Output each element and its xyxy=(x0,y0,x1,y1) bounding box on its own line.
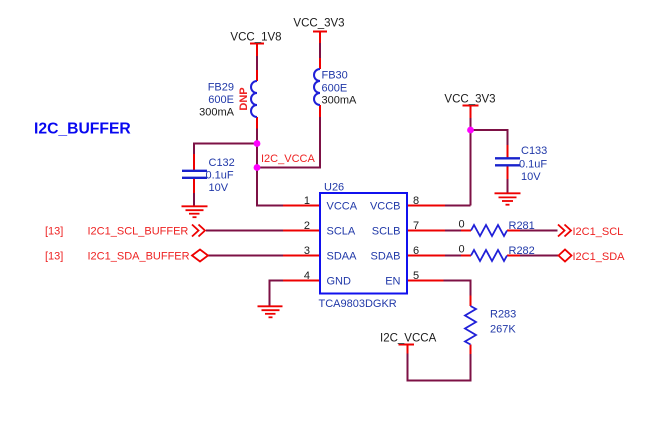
svg-text:VCCA: VCCA xyxy=(327,201,358,213)
svg-text:0.1uF: 0.1uF xyxy=(206,170,234,182)
svg-text:267K: 267K xyxy=(490,324,516,336)
svg-text:R281: R281 xyxy=(509,220,535,232)
svg-text:4: 4 xyxy=(304,270,310,282)
svg-text:SDAB: SDAB xyxy=(371,251,401,263)
svg-text:3: 3 xyxy=(304,245,310,257)
svg-text:SCLB: SCLB xyxy=(372,226,401,238)
svg-text:GND: GND xyxy=(327,276,352,288)
svg-text:600E: 600E xyxy=(208,94,234,106)
svg-text:I2C1_SCL: I2C1_SCL xyxy=(573,226,624,238)
svg-text:I2C_BUFFER: I2C_BUFFER xyxy=(34,121,131,138)
svg-text:C132: C132 xyxy=(209,157,235,169)
svg-text:R282: R282 xyxy=(509,245,535,257)
svg-text:[13]: [13] xyxy=(45,251,63,263)
svg-text:[13]: [13] xyxy=(45,226,63,238)
svg-text:U26: U26 xyxy=(324,182,344,194)
svg-text:TCA9803DGKR: TCA9803DGKR xyxy=(319,298,397,310)
svg-text:I2C_VCCA: I2C_VCCA xyxy=(380,333,437,345)
svg-text:300mA: 300mA xyxy=(199,107,235,119)
svg-text:SDAA: SDAA xyxy=(327,251,358,263)
svg-text:SCLA: SCLA xyxy=(327,226,356,238)
svg-text:1: 1 xyxy=(304,195,310,207)
svg-text:I2C1_SDA_BUFFER: I2C1_SDA_BUFFER xyxy=(88,251,190,263)
svg-text:6: 6 xyxy=(413,245,419,257)
svg-text:FB30: FB30 xyxy=(322,70,348,82)
svg-text:5: 5 xyxy=(413,270,419,282)
svg-text:C133: C133 xyxy=(521,145,547,157)
svg-text:300mA: 300mA xyxy=(322,95,358,107)
svg-text:VCCB: VCCB xyxy=(370,201,401,213)
svg-text:VCC_3V3: VCC_3V3 xyxy=(293,18,344,30)
svg-text:VCC_1V8: VCC_1V8 xyxy=(230,32,281,44)
svg-text:8: 8 xyxy=(413,195,419,207)
svg-text:DNP: DNP xyxy=(238,87,250,110)
svg-text:VCC_3V3: VCC_3V3 xyxy=(444,94,495,106)
svg-text:2: 2 xyxy=(304,220,310,232)
svg-text:EN: EN xyxy=(385,276,400,288)
svg-text:I2C_VCCA: I2C_VCCA xyxy=(261,153,315,165)
svg-text:10V: 10V xyxy=(209,182,229,194)
svg-text:R283: R283 xyxy=(490,309,516,321)
svg-text:600E: 600E xyxy=(322,83,348,95)
svg-text:0: 0 xyxy=(458,219,464,231)
svg-text:I2C1_SDA: I2C1_SDA xyxy=(573,251,626,263)
svg-text:I2C1_SCL_BUFFER: I2C1_SCL_BUFFER xyxy=(88,226,189,238)
svg-text:0.1uF: 0.1uF xyxy=(519,159,547,171)
svg-text:10V: 10V xyxy=(521,171,541,183)
svg-text:0: 0 xyxy=(458,244,464,256)
svg-text:7: 7 xyxy=(413,220,419,232)
svg-text:FB29: FB29 xyxy=(208,82,234,94)
